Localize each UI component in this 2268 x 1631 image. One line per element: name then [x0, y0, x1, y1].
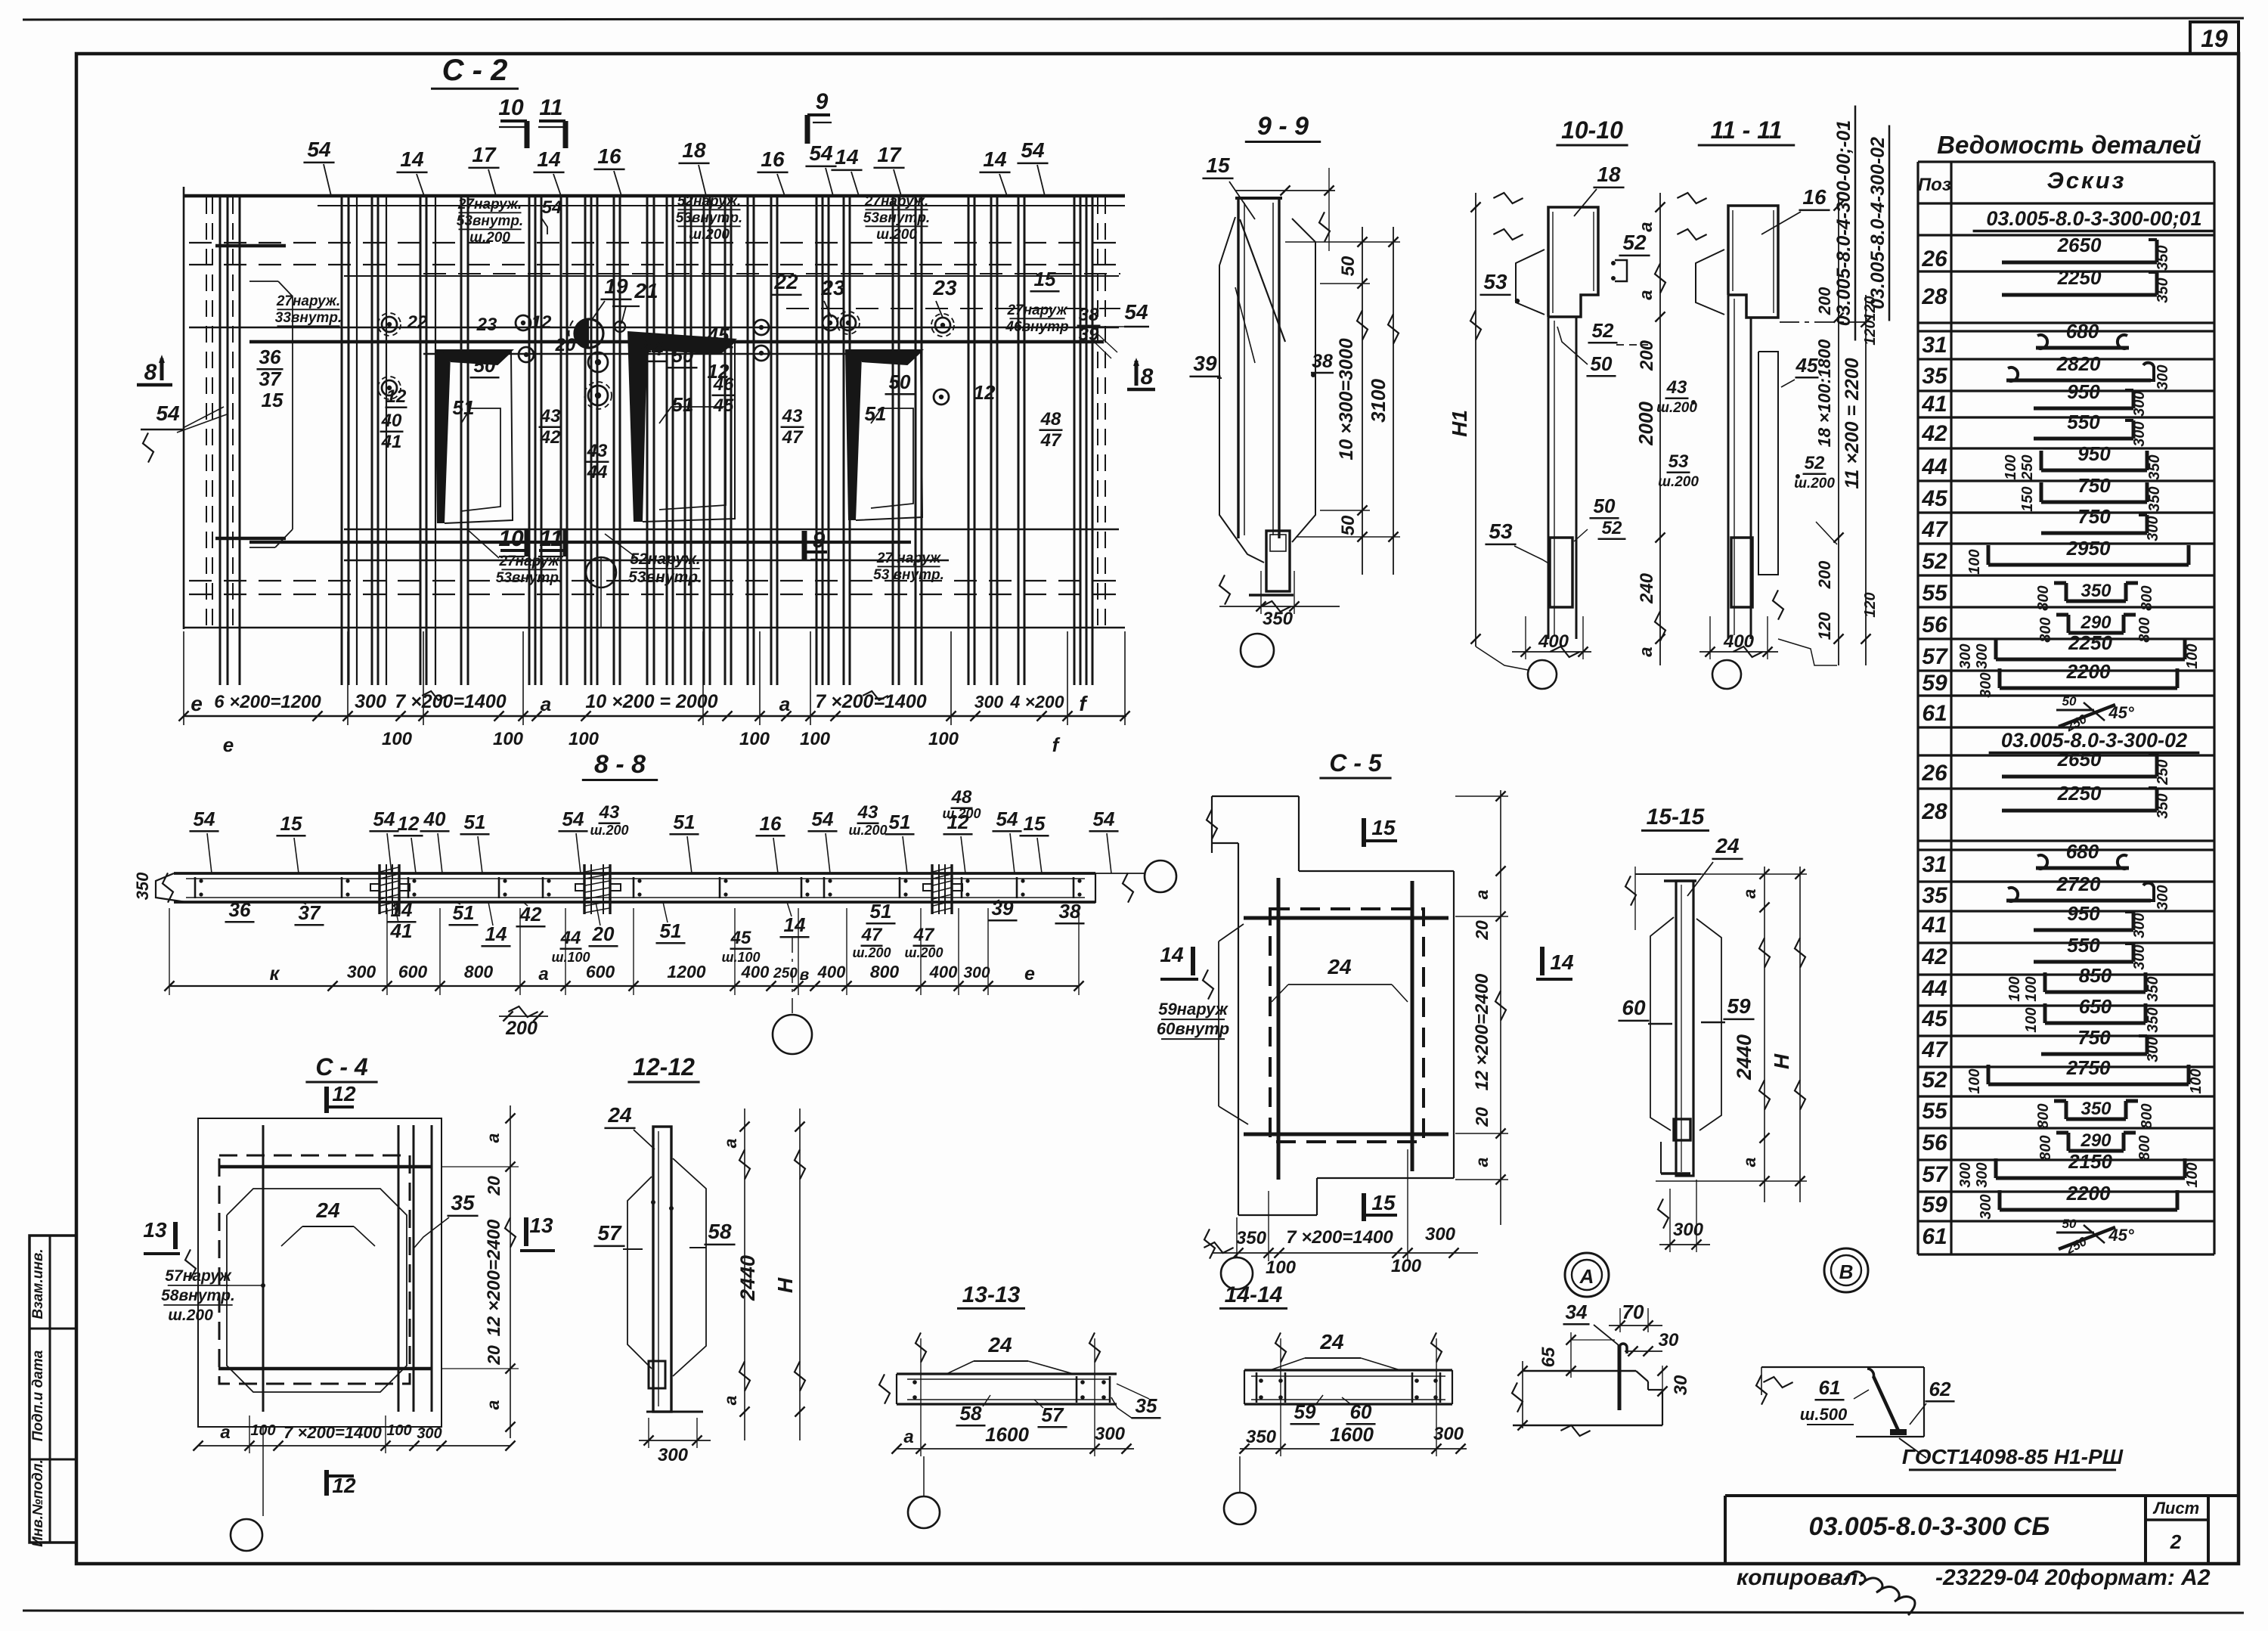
svg-text:60внутр: 60внутр — [1157, 1019, 1229, 1038]
svg-text:300: 300 — [1433, 1424, 1464, 1444]
11-11 breaks — [1677, 229, 1706, 240]
svg-text:ш.200: ш.200 — [852, 945, 891, 960]
svg-text:а: а — [483, 1133, 503, 1143]
svg-text:12: 12 — [386, 386, 407, 407]
svg-text:а: а — [720, 1395, 740, 1405]
svg-text:48: 48 — [951, 787, 972, 808]
svg-text:100: 100 — [2023, 976, 2040, 1001]
C-2 axis circle — [586, 557, 616, 588]
svg-text:21: 21 — [634, 279, 658, 302]
svg-text:290: 290 — [2080, 612, 2112, 633]
svg-text:28: 28 — [1921, 799, 1947, 824]
15-15 right hexagon — [1696, 919, 1721, 1130]
11-11 bottom dim 400 — [1699, 651, 1778, 653]
svg-text:20: 20 — [484, 1345, 503, 1366]
15-15 right dims — [1764, 867, 1765, 1202]
svg-text:15: 15 — [262, 389, 283, 411]
svg-text:2440: 2440 — [736, 1255, 759, 1301]
svg-text:к: к — [270, 963, 280, 984]
svg-text:800: 800 — [2139, 585, 2155, 610]
svg-text:44: 44 — [639, 336, 664, 360]
10-10 wall — [1548, 317, 1550, 639]
C-2 window opening 3 with black wedge — [845, 349, 924, 364]
svg-text:100: 100 — [2006, 976, 2023, 1001]
C-4 axis circle — [231, 1519, 262, 1551]
svg-text:2200: 2200 — [2066, 660, 2111, 683]
detail A left dim line — [1522, 1361, 1523, 1428]
svg-text:2200: 2200 — [2066, 1182, 2111, 1205]
svg-text:37: 37 — [259, 367, 282, 390]
svg-text:70: 70 — [1622, 1301, 1644, 1323]
svg-text:14: 14 — [835, 145, 859, 169]
svg-text:50: 50 — [672, 344, 694, 367]
svg-text:24: 24 — [1319, 1330, 1344, 1353]
svg-text:а: а — [1472, 889, 1492, 899]
svg-text:ш.200: ш.200 — [689, 227, 730, 243]
14-14 axis circle — [1224, 1493, 1256, 1524]
svg-text:в: в — [800, 966, 810, 984]
svg-text:58внутр.: 58внутр. — [161, 1287, 235, 1304]
svg-text:50: 50 — [2062, 1217, 2077, 1231]
svg-text:26: 26 — [1921, 247, 1947, 271]
9-9 axis circle — [1241, 634, 1274, 667]
svg-text:54: 54 — [542, 197, 562, 218]
svg-text:Инв.№подл.: Инв.№подл. — [30, 1459, 46, 1547]
C-2 dimension band — [184, 715, 1126, 717]
10-10 bottom dim 400 — [1512, 651, 1591, 653]
svg-text:2720: 2720 — [2056, 873, 2101, 895]
svg-text:ш.200: ш.200 — [876, 227, 917, 243]
svg-text:43: 43 — [857, 802, 878, 823]
svg-text:38: 38 — [1312, 351, 1333, 372]
svg-text:40: 40 — [423, 808, 446, 830]
svg-text:12-12: 12-12 — [633, 1053, 695, 1081]
11-11 top block — [1728, 206, 1778, 318]
svg-text:59: 59 — [1922, 1192, 1947, 1217]
svg-text:15: 15 — [1371, 816, 1396, 839]
svg-text:а: а — [720, 1138, 740, 1148]
svg-text:16: 16 — [1802, 185, 1826, 209]
C-2 window opening 1 with black wedge — [435, 349, 514, 364]
C-4 right dims — [510, 1105, 511, 1438]
svg-text:27наруж.: 27наруж. — [864, 194, 928, 209]
svg-text:13: 13 — [529, 1214, 553, 1237]
C-2 bottom section markers — [525, 529, 530, 557]
svg-text:800: 800 — [870, 962, 900, 981]
11-11 wall — [1727, 295, 1730, 639]
svg-text:51: 51 — [660, 919, 682, 942]
svg-text:15-15: 15-15 — [1647, 805, 1706, 829]
svg-text:54: 54 — [373, 808, 395, 830]
svg-text:300: 300 — [2145, 516, 2161, 541]
svg-text:14: 14 — [1160, 943, 1184, 966]
svg-text:1600: 1600 — [1330, 1423, 1374, 1446]
12-12 bottom dim 300 — [639, 1440, 711, 1441]
C-4 heavy horizontals — [218, 1165, 432, 1169]
svg-text:03.005-8.0-4-300-00;-01: 03.005-8.0-4-300-00;-01 — [1833, 120, 1854, 326]
svg-text:300: 300 — [658, 1445, 689, 1465]
svg-text:350: 350 — [2081, 1099, 2112, 1119]
svg-text:2000: 2000 — [1634, 402, 1657, 446]
svg-text:19: 19 — [2201, 25, 2228, 52]
C-2 item 20 rings — [588, 352, 608, 372]
svg-text:54: 54 — [812, 808, 834, 830]
svg-text:43: 43 — [587, 441, 608, 461]
8-8 dimension line — [169, 985, 1079, 987]
svg-text:12 ×200=2400: 12 ×200=2400 — [484, 1219, 504, 1336]
svg-text:53 внутр.: 53 внутр. — [873, 567, 944, 583]
svg-text:52: 52 — [1922, 1068, 1947, 1093]
C-4 outer rect — [198, 1118, 442, 1427]
svg-text:550: 550 — [2067, 411, 2100, 433]
svg-text:2: 2 — [2170, 1530, 2182, 1553]
svg-text:16: 16 — [597, 144, 621, 168]
svg-text:7 ×200=1400: 7 ×200=1400 — [395, 691, 506, 712]
11-11 left wedge — [1696, 250, 1724, 315]
svg-text:а: а — [541, 693, 551, 715]
svg-text:Подп.и дата: Подп.и дата — [30, 1350, 46, 1441]
svg-text:10-10: 10-10 — [1561, 116, 1623, 144]
svg-text:54: 54 — [307, 138, 331, 161]
svg-text:100: 100 — [2188, 1068, 2204, 1093]
svg-text:100: 100 — [2003, 454, 2019, 479]
svg-text:55: 55 — [1922, 581, 1948, 606]
svg-text:54: 54 — [156, 402, 180, 425]
svg-text:16: 16 — [761, 147, 785, 171]
svg-text:15: 15 — [1371, 1191, 1396, 1214]
svg-text:а: а — [538, 964, 548, 984]
14-14 dims — [1240, 1448, 1467, 1450]
svg-text:57наруж: 57наруж — [165, 1267, 232, 1285]
svg-text:250: 250 — [2155, 759, 2171, 785]
svg-text:600: 600 — [586, 962, 615, 981]
svg-text:47: 47 — [861, 925, 883, 945]
svg-text:3100: 3100 — [1367, 379, 1390, 423]
svg-text:350: 350 — [2146, 486, 2163, 511]
svg-text:100: 100 — [386, 1422, 411, 1439]
svg-text:300: 300 — [1095, 1424, 1126, 1444]
svg-text:950: 950 — [2067, 902, 2100, 925]
svg-text:250: 250 — [773, 966, 798, 981]
svg-text:300: 300 — [2131, 421, 2148, 446]
svg-text:9 - 9: 9 - 9 — [1257, 112, 1309, 141]
svg-text:50: 50 — [1338, 515, 1359, 535]
svg-text:54: 54 — [1093, 808, 1115, 830]
svg-text:53внутр.: 53внутр. — [628, 569, 702, 586]
8-8 panel end stirrups — [194, 877, 197, 898]
svg-text:800: 800 — [2035, 1103, 2052, 1128]
C-2 top section markers 10 11 9 — [525, 121, 530, 148]
svg-text:100: 100 — [569, 729, 600, 749]
svg-text:52: 52 — [1922, 549, 1947, 574]
svg-text:39: 39 — [1079, 324, 1099, 345]
weld rebar inclined — [1873, 1376, 1899, 1432]
8-8 right taper — [1077, 873, 1095, 902]
svg-text:11: 11 — [539, 95, 562, 120]
C-5 right dims — [1500, 790, 1501, 1225]
svg-text:51: 51 — [453, 901, 475, 924]
svg-text:03.005-8.0-3-300-00;01: 03.005-8.0-3-300-00;01 — [1986, 207, 2201, 230]
svg-text:51: 51 — [453, 396, 475, 419]
C-2 bottom chord — [184, 627, 1125, 628]
svg-text:27 наруж: 27 наруж — [876, 550, 941, 566]
C-4 marker 12 bottom — [324, 1470, 329, 1496]
svg-text:а: а — [1740, 888, 1759, 898]
svg-text:44: 44 — [587, 462, 608, 482]
svg-text:Взам.инв.: Взам.инв. — [30, 1248, 46, 1319]
12-12 left hexagon — [627, 1177, 652, 1369]
svg-text:27наруж.: 27наруж. — [276, 293, 340, 309]
svg-text:35: 35 — [451, 1191, 475, 1214]
svg-text:53: 53 — [1483, 270, 1507, 293]
svg-text:51: 51 — [674, 811, 696, 833]
svg-text:59наруж: 59наруж — [1158, 1000, 1228, 1019]
svg-text:300: 300 — [2131, 944, 2148, 969]
C-5 dashed square — [1270, 909, 1424, 1142]
10-10 dims — [1475, 193, 1476, 647]
detail A slab outline — [1523, 1370, 1636, 1372]
svg-text:24: 24 — [315, 1198, 340, 1222]
detail B bubble — [1824, 1248, 1868, 1292]
svg-text:А: А — [1579, 1265, 1594, 1288]
svg-text:300: 300 — [347, 962, 376, 981]
sheet top edge line — [23, 18, 2244, 20]
svg-text:10 ×200 = 2000: 10 ×200 = 2000 — [585, 691, 717, 712]
svg-text:45: 45 — [707, 324, 730, 346]
svg-text:2650: 2650 — [2057, 748, 2102, 771]
svg-text:28: 28 — [1921, 284, 1947, 309]
svg-text:100: 100 — [493, 729, 524, 749]
svg-text:240: 240 — [1637, 572, 1657, 604]
svg-text:350: 350 — [2146, 454, 2163, 479]
svg-text:а: а — [1740, 1157, 1759, 1167]
svg-text:14: 14 — [400, 147, 424, 171]
svg-text:300: 300 — [974, 692, 1004, 712]
svg-text:20: 20 — [592, 922, 615, 945]
svg-text:47: 47 — [1040, 430, 1062, 451]
svg-text:а: а — [483, 1400, 503, 1409]
svg-text:350: 350 — [2081, 581, 2112, 601]
11-11 rotated designations — [1833, 106, 1855, 341]
12-12 right hexagon — [673, 1158, 706, 1376]
svg-text:В: В — [1839, 1260, 1854, 1283]
svg-text:2950: 2950 — [2066, 537, 2111, 560]
svg-text:38: 38 — [1059, 900, 1081, 922]
svg-text:ГОСТ14098-85 Н1-РШ: ГОСТ14098-85 Н1-РШ — [1902, 1445, 2124, 1468]
svg-text:53внутр.: 53внутр. — [457, 213, 523, 229]
svg-text:680: 680 — [2066, 320, 2099, 343]
svg-text:53внутр.: 53внутр. — [863, 210, 930, 226]
13-13 beam — [897, 1372, 1117, 1375]
svg-text:15: 15 — [1034, 268, 1056, 290]
svg-text:43: 43 — [1666, 377, 1687, 398]
8-8 axis circle right — [1145, 860, 1176, 892]
svg-text:100: 100 — [928, 729, 959, 749]
svg-text:47: 47 — [782, 427, 804, 448]
svg-text:300: 300 — [1978, 672, 1994, 697]
svg-text:1200: 1200 — [667, 962, 705, 981]
svg-text:300: 300 — [2155, 364, 2171, 389]
title block — [1725, 1494, 2239, 1497]
10-10 left wedge 53 — [1516, 250, 1545, 315]
svg-text:30: 30 — [1671, 1375, 1691, 1395]
svg-text:С - 4: С - 4 — [315, 1053, 368, 1081]
svg-text:52наруж.: 52наруж. — [677, 194, 741, 209]
svg-text:37: 37 — [299, 901, 321, 924]
13-13 dims — [897, 1448, 1134, 1450]
svg-text:6 ×200=1200: 6 ×200=1200 — [214, 692, 321, 712]
svg-text:400: 400 — [1538, 631, 1569, 652]
svg-text:120: 120 — [1862, 320, 1879, 345]
weld detail 61/62 — [1761, 1366, 1924, 1368]
svg-text:2650: 2650 — [2057, 234, 2102, 256]
svg-text:31: 31 — [1922, 333, 1947, 358]
svg-text:14: 14 — [784, 913, 806, 936]
svg-text:100: 100 — [1266, 1257, 1297, 1278]
svg-text:12: 12 — [974, 381, 996, 404]
svg-text:59: 59 — [1922, 671, 1947, 696]
svg-text:800: 800 — [2136, 617, 2153, 642]
svg-text:44: 44 — [1921, 454, 1947, 479]
svg-text:С - 5: С - 5 — [1329, 749, 1383, 777]
svg-text:24: 24 — [1327, 955, 1352, 978]
9-9 left panel outline — [1219, 217, 1264, 563]
C-5 marker 15 top — [1362, 818, 1366, 847]
svg-text:55: 55 — [1922, 1099, 1948, 1124]
svg-text:С - 2: С - 2 — [442, 54, 508, 87]
svg-text:43: 43 — [540, 406, 561, 426]
svg-text:53внутр.: 53внутр. — [676, 210, 742, 226]
svg-text:400: 400 — [929, 963, 958, 981]
svg-text:350: 350 — [1236, 1228, 1267, 1248]
svg-text:7 ×200=1400: 7 ×200=1400 — [283, 1423, 382, 1442]
11-11 dash-dot level line — [1780, 321, 1867, 323]
12-12 right dims — [744, 1109, 745, 1440]
9-9 diagonal — [1240, 219, 1285, 342]
svg-text:100: 100 — [800, 729, 831, 749]
svg-text:20: 20 — [1472, 1107, 1492, 1127]
svg-text:300: 300 — [1978, 1194, 1994, 1219]
svg-text:18: 18 — [682, 138, 706, 162]
svg-text:13: 13 — [143, 1218, 167, 1242]
C-2 dashed verticals (hidden) — [206, 197, 207, 628]
13-13 axis circle — [908, 1496, 940, 1528]
svg-text:ш.200: ш.200 — [942, 806, 981, 821]
svg-text:61: 61 — [1922, 701, 1947, 726]
svg-text:300: 300 — [1425, 1224, 1456, 1245]
svg-text:57: 57 — [1042, 1403, 1064, 1426]
svg-text:45: 45 — [730, 928, 751, 948]
svg-text:950: 950 — [2067, 380, 2100, 403]
svg-text:33внутр.: 33внутр. — [275, 310, 342, 326]
svg-text:а: а — [1636, 290, 1656, 299]
15-15 bottom cassette — [1674, 1119, 1690, 1140]
svg-text:ш.200: ш.200 — [904, 945, 943, 960]
svg-text:58: 58 — [708, 1220, 732, 1243]
svg-text:45°: 45° — [2108, 703, 2133, 722]
svg-text:300: 300 — [1974, 1162, 1991, 1187]
svg-text:41: 41 — [381, 432, 402, 452]
svg-text:850: 850 — [2079, 964, 2112, 987]
svg-text:Эскиз: Эскиз — [2047, 167, 2127, 194]
svg-text:800: 800 — [2035, 585, 2052, 610]
svg-text:57: 57 — [1922, 1162, 1948, 1187]
svg-text:300: 300 — [2131, 913, 2148, 938]
svg-text:7 ×200=1400: 7 ×200=1400 — [815, 691, 926, 712]
svg-text:43: 43 — [599, 802, 620, 823]
svg-text:17: 17 — [472, 143, 497, 166]
svg-text:34: 34 — [1566, 1301, 1588, 1323]
svg-text:12: 12 — [531, 312, 552, 333]
svg-text:ш.200: ш.200 — [848, 823, 887, 838]
12-12 panel — [653, 1127, 671, 1412]
svg-text:47: 47 — [1921, 517, 1948, 542]
15-15 top extension — [1635, 873, 1701, 875]
svg-text:57: 57 — [1922, 644, 1948, 669]
svg-text:а: а — [779, 693, 790, 715]
svg-text:57: 57 — [597, 1221, 622, 1245]
svg-text:800: 800 — [464, 962, 494, 981]
14-14 end stirrups — [1256, 1372, 1258, 1403]
svg-text:20: 20 — [555, 335, 576, 355]
svg-text:Поз: Поз — [1918, 175, 1951, 195]
svg-text:22: 22 — [407, 312, 428, 333]
C-2 hidden (dashed) slab lines — [189, 242, 1120, 243]
svg-text:23: 23 — [820, 276, 845, 299]
svg-text:65: 65 — [1538, 1347, 1559, 1367]
svg-text:51: 51 — [464, 811, 486, 833]
svg-text:Н1: Н1 — [1448, 410, 1471, 437]
svg-text:46: 46 — [713, 374, 734, 395]
svg-text:23: 23 — [932, 276, 957, 299]
svg-text:2820: 2820 — [2056, 352, 2101, 375]
svg-text:10: 10 — [498, 526, 524, 551]
svg-text:50: 50 — [474, 354, 496, 377]
9-9 dimension lines right — [1362, 227, 1363, 575]
15-15 left hexagon — [1650, 917, 1674, 1130]
svg-text:42: 42 — [1921, 944, 1947, 969]
svg-text:100: 100 — [2184, 643, 2201, 668]
svg-text:18: 18 — [1597, 163, 1621, 186]
C-5 panel outline left — [1218, 941, 1219, 1106]
svg-text:53внутр.: 53внутр. — [496, 570, 562, 586]
svg-text:45: 45 — [1921, 1006, 1948, 1031]
svg-text:ш.200: ш.200 — [590, 823, 628, 838]
svg-text:300: 300 — [2145, 1037, 2161, 1062]
detail A rebar with hook — [1618, 1345, 1622, 1410]
svg-text:27наруж: 27наруж — [1006, 302, 1067, 318]
svg-text:14: 14 — [1550, 950, 1574, 974]
svg-text:e: e — [191, 692, 203, 715]
svg-text:41: 41 — [390, 919, 413, 942]
11-11 dims right — [1838, 193, 1839, 665]
C-2 item 19 big circle — [575, 319, 603, 348]
svg-text:39: 39 — [1193, 352, 1217, 375]
svg-text:54: 54 — [1021, 138, 1045, 162]
11-11 side panel — [1758, 352, 1778, 575]
svg-text:62: 62 — [1929, 1378, 1951, 1400]
svg-text:41: 41 — [1921, 913, 1947, 938]
svg-text:а: а — [1636, 222, 1656, 231]
svg-text:17: 17 — [877, 143, 902, 166]
svg-text:14-14: 14-14 — [1225, 1282, 1283, 1307]
svg-text:60: 60 — [1622, 996, 1646, 1019]
svg-text:800: 800 — [2139, 1103, 2155, 1128]
svg-text:44: 44 — [1921, 976, 1947, 1001]
svg-text:350: 350 — [133, 872, 152, 900]
detail A bubble — [1565, 1253, 1609, 1297]
svg-text:290: 290 — [2080, 1130, 2112, 1151]
